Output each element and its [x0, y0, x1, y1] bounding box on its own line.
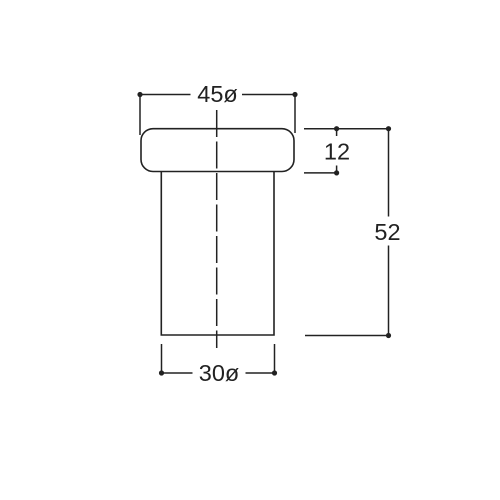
svg-text:12: 12: [324, 139, 350, 165]
centerline (vertical dashed axis): [216, 110, 218, 348]
node 52 lower terminator dot: [386, 333, 391, 338]
node 12 upper terminator dot: [334, 126, 339, 131]
wire 45ø left extension line: [139, 95, 141, 136]
node 12 lower terminator dot: [334, 170, 339, 175]
node 45ø left terminator dot: [137, 92, 142, 97]
wire 30ø dimension line left segment: [162, 372, 193, 374]
wire 52 dimension line lower segment: [388, 246, 390, 336]
wire 12 dimension lower extension line: [304, 172, 337, 174]
svg-text:52: 52: [374, 219, 400, 245]
wire 30ø dimension line right segment: [246, 372, 275, 374]
wire 12 dimension line upper stub: [336, 129, 338, 136]
wire 52 dimension line upper segment: [388, 129, 390, 217]
wire 45ø right extension line: [294, 95, 296, 134]
node 30ø right terminator dot: [272, 370, 277, 375]
wire 30ø right extension line: [274, 344, 276, 373]
node 52 upper terminator dot: [386, 126, 391, 131]
wire 45ø dimension line right segment: [242, 94, 295, 96]
svg-text:30ø: 30ø: [199, 360, 240, 386]
cap outline (45ø rounded body): [141, 129, 294, 172]
node 45ø right terminator dot: [292, 92, 297, 97]
wire 30ø left extension line: [161, 344, 163, 373]
wire 52 dimension bottom extension line: [305, 335, 389, 337]
wire 45ø dimension line left segment: [140, 94, 191, 96]
svg-text:45ø: 45ø: [197, 81, 238, 107]
cylinder body outline (30ø shaft): [161, 172, 274, 335]
wire 12 dimension upper extension line: [304, 128, 389, 130]
node 30ø left terminator dot: [159, 370, 164, 375]
wire 12 dimension line lower stub: [336, 166, 338, 173]
